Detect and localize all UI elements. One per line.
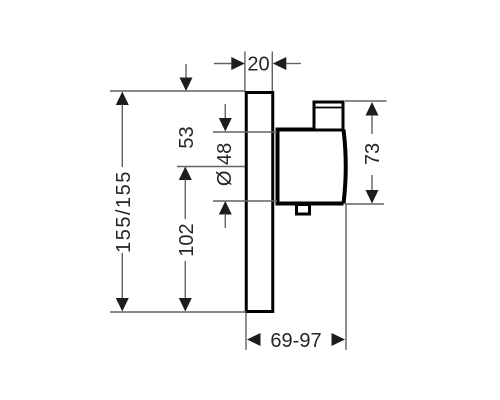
svg-text:73: 73	[362, 143, 384, 165]
svg-text:Ø 48: Ø 48	[214, 143, 236, 186]
svg-text:20: 20	[247, 54, 269, 76]
svg-text:53: 53	[176, 126, 198, 148]
svg-text:102: 102	[176, 223, 198, 256]
svg-text:155/155: 155/155	[113, 170, 135, 253]
svg-text:69-97: 69-97	[270, 330, 321, 352]
